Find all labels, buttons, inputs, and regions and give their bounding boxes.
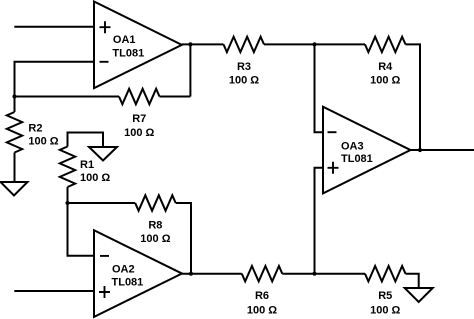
wire OA3 output [411,149,474,151]
resistor R7 [119,89,160,104]
ground right of R1 [89,147,117,161]
op-amp U2 OA2 triangle [94,230,182,317]
wire R5 to ground [406,274,419,288]
op-amp U1 OA1 triangle [94,2,182,89]
wire OA1 inverting input from feedback node [15,62,95,97]
wire node to R2 [14,97,16,113]
node OA2 feedback/R1 junction [65,201,69,205]
wire feedback left of R8 [68,202,136,204]
svg-text:TL081: TL081 [112,277,144,289]
resistor R6 [242,266,282,281]
node R3/R4 inverting junction [312,42,316,46]
wire node down to OA3 inverting input [315,44,324,132]
node OA1 output dot [188,42,192,46]
wire OA1 feedback horizontal left of R7 [15,96,120,98]
node OA3 output dot [418,148,422,152]
wire OA1 output [182,43,224,45]
resistor R5 [365,266,406,281]
OA3 plus symbol [328,162,339,174]
resistor R1 [60,147,75,188]
svg-text:100 Ω: 100 Ω [124,127,154,139]
ground right of R5 [405,288,433,302]
svg-text:R3: R3 [237,61,251,73]
svg-text:OA3: OA3 [341,141,364,153]
svg-text:R1: R1 [80,159,94,171]
wire R3 to node [264,43,315,45]
wire R2 to ground [14,153,16,183]
svg-text:TL081: TL081 [112,48,144,60]
OA1 plus symbol [100,21,111,33]
svg-text:100 Ω: 100 Ω [28,135,58,147]
svg-text:R4: R4 [378,61,393,73]
wire OA2 non-inverting input [14,290,94,292]
wire node to R5 [315,273,366,275]
node OA2 output dot [189,272,193,276]
resistor R8 [135,195,176,210]
wire OA1 feedback vertical [189,44,191,96]
wire R8 to OA2 output [176,203,191,274]
OA2 minus symbol [100,255,109,257]
wire R4 to OA3 output [406,44,421,150]
wire OA2 output [182,273,242,275]
wire OA1 feedback horizontal right of R7 [160,96,191,98]
OA2 plus symbol [99,286,110,298]
svg-text:R6: R6 [255,290,269,302]
svg-text:100 Ω: 100 Ω [229,74,259,86]
node R6/R5 junction [312,272,316,276]
svg-text:100 Ω: 100 Ω [140,233,170,245]
wire R1 top to ground hook [68,133,104,148]
OA1 minus symbol [100,61,109,63]
svg-text:100 Ω: 100 Ω [370,305,400,317]
svg-text:R5: R5 [378,290,392,302]
wire OA2 inverting input from feedback node [68,203,95,256]
svg-text:100 Ω: 100 Ω [370,75,400,87]
svg-text:TL081: TL081 [341,153,373,165]
resistor R2 [7,112,22,153]
resistor R4 [365,37,406,52]
svg-text:OA2: OA2 [112,264,135,276]
wire R6 to node [282,273,314,275]
wire OA1 non-inverting input [14,26,94,28]
ground below R2 [1,182,28,196]
OA3 minus symbol [328,131,337,133]
svg-text:R2: R2 [28,122,42,134]
wire node to R1 [67,187,69,203]
svg-text:100 Ω: 100 Ω [80,172,110,184]
wire node up to OA3 non-inverting input [315,168,324,274]
svg-text:R8: R8 [148,219,162,231]
svg-text:100 Ω: 100 Ω [247,305,277,317]
op-amp U3 OA3 triangle [323,107,411,194]
node feedback/R2 junction [12,94,16,98]
svg-text:R7: R7 [132,113,146,125]
resistor R3 [224,37,265,52]
wire R4 left segment [315,43,366,45]
svg-text:OA1: OA1 [113,34,136,46]
